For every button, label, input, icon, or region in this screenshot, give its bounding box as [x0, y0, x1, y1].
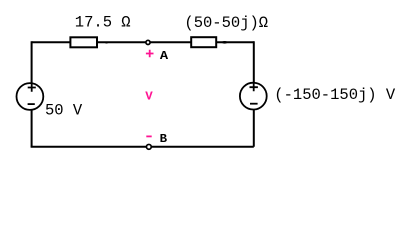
- junction dot on top wire left: [105, 42, 108, 44]
- voltage source V1 plus sign: [28, 83, 36, 91]
- voltage source V2 circle: [240, 83, 267, 110]
- svg-text:(50-50j)Ω: (50-50j)Ω: [184, 14, 268, 32]
- svg-text:V: V: [145, 90, 153, 104]
- wire left: [31, 41, 33, 147]
- node B terminal circle: [146, 144, 151, 149]
- wire top: [32, 41, 254, 43]
- voltage source V2 plus sign: [250, 83, 258, 91]
- resistor R1 (17.5 ohm): [70, 37, 97, 47]
- voltage source V2 minus sign: [250, 103, 258, 105]
- wire right: [253, 41, 255, 147]
- svg-text:A: A: [160, 49, 169, 63]
- node A terminal circle: [146, 40, 150, 44]
- svg-text:17.5 Ω: 17.5 Ω: [75, 14, 131, 32]
- junction dot on top wire right: [222, 41, 228, 44]
- voltage source V1 circle: [17, 83, 44, 110]
- wire bottom: [31, 146, 254, 148]
- svg-text:B: B: [160, 132, 168, 146]
- node A plus polarity mark: [146, 50, 154, 58]
- svg-text:(-150-150j) V: (-150-150j) V: [274, 86, 396, 104]
- voltage source V1 minus sign: [28, 103, 35, 105]
- node B minus polarity mark: [146, 135, 151, 137]
- svg-text:50 V: 50 V: [45, 102, 83, 120]
- impedance Z1 (50-50j ohm): [191, 37, 216, 47]
